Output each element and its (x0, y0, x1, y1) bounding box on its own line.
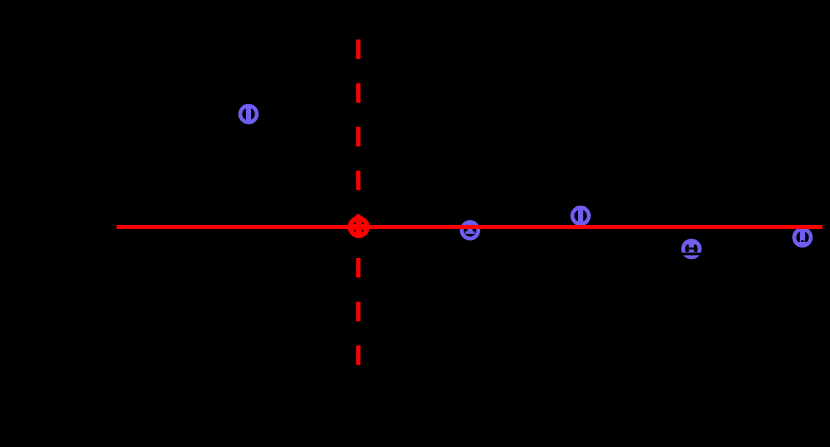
vertical dashed red line (356, 40, 360, 366)
data point P4 errorbar (687, 243, 697, 253)
data point P1 circle (240, 106, 257, 123)
origin marker (red circled plus) errorbar cross (348, 216, 370, 238)
data point P3 errorbar (576, 208, 586, 225)
data point P4 circle (683, 241, 700, 258)
black curve segment crossing P4 bar (689, 248, 695, 250)
data point P1 errorbar (244, 106, 254, 122)
black curve segment crossing P5 (801, 240, 804, 242)
data point P5 circle (794, 229, 811, 246)
data point P2 circle (462, 222, 479, 239)
data point P2 errorbar (465, 223, 475, 233)
origin marker (red circled plus) circle (350, 218, 367, 235)
black curve segment crossing P4 circle bottom (680, 253, 703, 256)
data point P3 circle (572, 208, 589, 225)
zero line (red horizontal) (117, 225, 823, 229)
data point P5 errorbar (798, 229, 808, 243)
